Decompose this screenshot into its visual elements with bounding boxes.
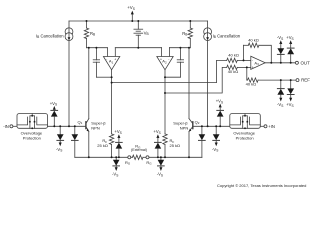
node C2 top — [179, 47, 181, 49]
node base L diode2 — [74, 125, 76, 127]
node base R diode2 — [201, 125, 203, 127]
node rail VB — [137, 20, 139, 22]
wire +IN base — [193, 125, 230, 127]
wire A2 to A3 — [165, 67, 227, 93]
svg-text:RG: RG — [146, 160, 152, 166]
diode -IN to +Vs — [50, 101, 58, 126]
node Q2 collector — [188, 47, 190, 49]
diode -IN to emitter rail — [72, 126, 79, 157]
wire A2 output — [164, 70, 166, 134]
terminal RG right — [146, 156, 152, 166]
transistor Q1 super-beta NPN — [78, 119, 107, 158]
node REF diode +Vs — [290, 79, 292, 81]
resistor 40k A3 minus input — [227, 53, 251, 63]
diode RG2 to -Vs — [157, 157, 165, 177]
svg-text:40 kΩ: 40 kΩ — [246, 82, 257, 87]
svg-text:-VS: -VS — [112, 172, 118, 178]
svg-text:VB: VB — [144, 30, 149, 36]
node A1 out tap — [111, 82, 113, 84]
svg-text:+VS: +VS — [50, 101, 57, 107]
svg-text:IB Cancellation: IB Cancellation — [213, 33, 241, 39]
resistor RB1 — [84, 21, 95, 48]
node rail R -Vs diode — [160, 156, 162, 158]
svg-text:Q2: Q2 — [195, 119, 200, 125]
node base L -Vs diode — [59, 125, 61, 127]
svg-text:Protection: Protection — [236, 135, 254, 140]
svg-text:OUT: OUT — [301, 60, 311, 65]
svg-text:+: + — [252, 66, 254, 70]
svg-text:25 kΩ: 25 kΩ — [97, 143, 108, 148]
svg-text:RG: RG — [125, 160, 131, 166]
diode REF to -Vs — [277, 80, 284, 108]
svg-text:A3: A3 — [254, 60, 259, 66]
wire Q1 collector — [88, 48, 90, 119]
node base L IB — [68, 125, 70, 127]
svg-text:-: - — [252, 59, 253, 63]
svg-text:-VS: -VS — [277, 102, 283, 108]
svg-text:+: + — [160, 57, 162, 61]
svg-text:+VS: +VS — [153, 129, 160, 135]
resistor 40k to REF — [246, 67, 259, 86]
svg-text:-IN: -IN — [3, 124, 9, 129]
wire A3 output — [265, 62, 295, 64]
svg-text:IB Cancellation: IB Cancellation — [36, 33, 64, 39]
op-amp A3 — [251, 56, 265, 69]
svg-text:-VS: -VS — [212, 147, 218, 153]
resistor 40k A3 plus input — [227, 65, 251, 74]
resistor RG external — [131, 144, 147, 160]
wire -IN base — [48, 125, 86, 127]
node rail RB2 — [189, 20, 191, 22]
node A2 out tap — [164, 92, 166, 94]
svg-text:Protection: Protection — [23, 135, 41, 140]
current source I_B2 Cancellation — [204, 21, 241, 126]
svg-text:NPN: NPN — [180, 125, 189, 130]
node C2 bottom — [164, 76, 166, 78]
capacitor C2 — [165, 48, 184, 77]
svg-text:+: + — [114, 57, 116, 61]
node rail L -Vs diode — [115, 156, 117, 158]
wire left emitter rail — [75, 156, 128, 158]
svg-text:40 kΩ: 40 kΩ — [228, 69, 239, 74]
overvoltage protection box left — [17, 114, 48, 141]
wire top +Vs rail — [69, 20, 208, 22]
svg-text:-: - — [106, 57, 107, 61]
diode +IN to emitter rail — [199, 126, 206, 157]
node C1 top — [95, 47, 97, 49]
node rail R +Vs diode — [157, 156, 159, 158]
wire node A2 inverting — [168, 48, 170, 57]
svg-text:-: - — [168, 57, 169, 61]
svg-text:+VS: +VS — [127, 5, 135, 11]
terminal REF — [296, 78, 310, 83]
op-amp A1 — [103, 57, 119, 70]
terminal +IN — [260, 124, 275, 129]
svg-text:-VS: -VS — [157, 172, 163, 178]
node rail L +Vs diode — [118, 156, 120, 158]
diode RG1 to +Vs — [114, 129, 122, 157]
node base R IB — [207, 125, 209, 127]
wire A1 to A3 — [112, 60, 227, 82]
transistor Q2 super-beta NPN — [173, 119, 199, 158]
resistor RF1 25k — [97, 134, 114, 157]
svg-text:Copyright © 2017, Texas Instru: Copyright © 2017, Texas Instruments Inco… — [217, 183, 306, 188]
node REF diode -Vs — [280, 79, 282, 81]
wire A1 output — [111, 70, 113, 134]
node rail RF1 — [111, 156, 113, 158]
diode RG1 to -Vs — [112, 157, 120, 177]
svg-text:REF: REF — [301, 78, 310, 83]
node C1 bottom — [111, 76, 113, 78]
resistor RF2 25k — [163, 134, 180, 157]
svg-text:-VS: -VS — [277, 35, 283, 41]
svg-text:25 kΩ: 25 kΩ — [170, 143, 181, 148]
node rail Q2 emitter — [188, 156, 190, 158]
svg-text:Q1: Q1 — [78, 119, 83, 125]
diode REF to +Vs — [286, 80, 294, 108]
terminal OUT — [295, 60, 310, 65]
resistor 40k feedback — [244, 38, 272, 63]
node base L +Vs diode — [53, 125, 55, 127]
overvoltage protection box right — [230, 114, 260, 141]
terminal -IN — [3, 124, 17, 129]
diode RG2 to +Vs — [153, 129, 161, 157]
svg-text:+VS: +VS — [216, 99, 223, 105]
wire REF line — [258, 79, 296, 81]
svg-text:RB: RB — [182, 31, 187, 37]
node OUT diode +Vs — [290, 62, 292, 64]
battery VB — [134, 21, 149, 48]
capacitor C1 — [93, 48, 111, 77]
svg-text:+IN: +IN — [268, 124, 275, 129]
wire node A1 inverting — [87, 47, 108, 49]
svg-text:-VS: -VS — [56, 147, 62, 153]
wire node VB bias — [114, 48, 116, 57]
node A3 out feedback — [270, 62, 272, 64]
node A3 plus — [246, 66, 248, 68]
svg-text:40 kΩ: 40 kΩ — [248, 38, 259, 43]
resistor RB2 — [182, 21, 192, 48]
current source I_B1 Cancellation — [36, 21, 73, 126]
terminal RG left — [125, 156, 131, 166]
svg-text:RB: RB — [90, 31, 95, 37]
svg-text:(External): (External) — [131, 148, 147, 152]
wire right emitter rail — [149, 156, 202, 158]
node rail +Vs arrow — [131, 20, 133, 22]
node rail RF2 — [164, 156, 166, 158]
node OUT diode -Vs — [280, 62, 282, 64]
power +Vs arrow top — [127, 5, 135, 21]
svg-text:40 kΩ: 40 kΩ — [228, 53, 239, 58]
svg-text:A2: A2 — [162, 59, 167, 65]
node Q1 collector — [88, 47, 90, 49]
svg-text:+VS: +VS — [286, 35, 293, 41]
node base R -Vs diode — [215, 125, 217, 127]
svg-text:NPN: NPN — [91, 125, 100, 130]
svg-text:A1: A1 — [109, 59, 114, 65]
diode +IN to -Vs — [212, 126, 220, 152]
diode +IN to +Vs — [216, 99, 224, 127]
svg-text:+VS: +VS — [286, 102, 293, 108]
diode -IN to -Vs — [56, 126, 64, 152]
node VB bottom — [137, 47, 139, 49]
diode OUT to -Vs — [277, 35, 284, 63]
node A3 minus — [243, 59, 245, 61]
op-amp A2 — [157, 57, 173, 70]
svg-text:+VS: +VS — [114, 129, 121, 135]
node rail RB1 — [86, 20, 88, 22]
node rail Q1 emitter — [88, 156, 90, 158]
diode OUT to +Vs — [286, 35, 294, 63]
node base R +Vs diode — [219, 125, 221, 127]
wire Q2 collector — [188, 48, 190, 119]
